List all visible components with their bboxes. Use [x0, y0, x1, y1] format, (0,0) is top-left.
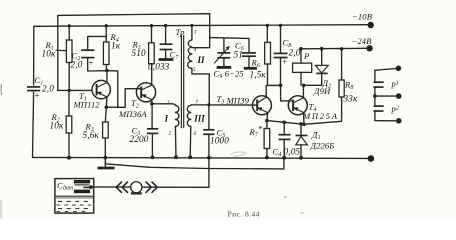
resistor R1: [42, 24, 73, 92]
resistor R7: [249, 121, 270, 160]
transformer winding II: [176, 24, 210, 74]
resistor R6: [250, 24, 271, 86]
capacitor C2: [71, 36, 107, 71]
wire T2 emitter: [150, 100, 154, 106]
svg-text:0,05: 0,05: [284, 147, 301, 157]
svg-text:1000: 1000: [210, 136, 229, 146]
wire bottom common bus: [33, 157, 369, 158]
svg-text:МП112: МП112: [73, 100, 101, 110]
svg-text:+: +: [88, 58, 94, 68]
svg-text:33к: 33к: [343, 94, 358, 104]
svg-text:−24В: −24В: [352, 36, 373, 46]
sensor Cdat box: [55, 179, 94, 214]
svg-text:II: II: [197, 55, 206, 65]
svg-text:0,033: 0,033: [148, 62, 170, 72]
svg-text:Рис. 8.44: Рис. 8.44: [228, 210, 260, 219]
sensor plug: [74, 180, 93, 193]
wire tank top: [210, 38, 249, 53]
wire T3 emitter: [265, 113, 269, 123]
wire -24V bus: [301, 47, 367, 50]
wire T1 collector: [106, 71, 108, 83]
svg-text:510: 510: [132, 48, 146, 58]
wire shield run: [105, 158, 284, 169]
capacitor C7: [148, 24, 179, 72]
svg-text:Тр: Тр: [176, 27, 186, 37]
transformer core: [181, 36, 183, 128]
svg-text:III: III: [193, 114, 205, 124]
ground bar below C7: [159, 58, 174, 61]
capacitor C3: [130, 104, 159, 159]
relay contact p2: [373, 94, 399, 121]
svg-text:2: 2: [169, 131, 172, 137]
svg-text:МП25А: МП25А: [302, 111, 339, 121]
svg-text:5: 5: [193, 67, 196, 73]
svg-text:2200: 2200: [130, 134, 149, 144]
transistor T3: [217, 94, 272, 115]
svg-text:2,0: 2,0: [71, 60, 83, 70]
capacitor C1: [27, 75, 54, 100]
relay P coil: [293, 47, 312, 85]
resistor R5: [132, 24, 155, 85]
caption: [228, 210, 260, 219]
svg-text:МП36А: МП36А: [118, 109, 147, 119]
trimmer capacitor C9: [214, 38, 245, 80]
svg-text:1,5к: 1,5к: [250, 70, 267, 80]
svg-text:2,0: 2,0: [289, 48, 301, 58]
svg-text:1к: 1к: [111, 41, 121, 51]
scan noise marks: [1, 84, 304, 219]
wire sensor cable: [91, 186, 209, 188]
wire winding II pin5 riser: [207, 74, 210, 107]
wire left column: [33, 26, 34, 157]
svg-text:10к: 10к: [50, 121, 64, 131]
transistor T1: [73, 80, 111, 109]
sensor water: [56, 196, 93, 211]
svg-text:I: I: [164, 114, 169, 124]
svg-text:10к: 10к: [42, 49, 56, 59]
svg-text:5,6к: 5,6к: [83, 130, 100, 140]
contact terminal p1: [396, 66, 402, 72]
terminal bottom output: [368, 155, 375, 162]
wire T3 collector to T4 base: [266, 85, 293, 101]
capacitor C6: [234, 41, 257, 69]
svg-text:2,0: 2,0: [42, 84, 54, 94]
relay contact p1: [373, 69, 399, 97]
cable symbol chevrons and circle: [116, 182, 157, 194]
transistor T2: [118, 83, 156, 119]
resistor R4: [103, 24, 120, 71]
capacitor C5: [203, 105, 229, 188]
node base T1 wire: [58, 89, 92, 91]
diode D1: [296, 122, 335, 160]
contact terminal middle: [396, 93, 402, 99]
svg-text:3: 3: [193, 30, 197, 36]
transformer winding III: [187, 100, 257, 160]
node T1 collector junction: [105, 69, 109, 73]
svg-text:+: +: [34, 90, 40, 100]
transistor T4: [288, 96, 338, 121]
svg-text:Р: Р: [303, 51, 310, 61]
svg-text:7: 7: [195, 100, 198, 106]
resistor R3: [83, 97, 109, 160]
wire coupling T1 to T2 base: [105, 71, 142, 109]
contact terminal p2: [396, 118, 402, 124]
resistor R2: [50, 90, 72, 159]
capacitor C4: [273, 121, 301, 160]
svg-text:+: +: [282, 56, 288, 66]
svg-text:С9 6−25: С9 6−25: [214, 69, 245, 81]
svg-text:6: 6: [194, 131, 197, 137]
transformer winding I: [152, 100, 179, 159]
svg-text:1: 1: [167, 100, 170, 106]
svg-text:−10В: −10В: [352, 12, 373, 22]
terminal -10B: [352, 12, 374, 29]
wire -10V top bus: [34, 25, 368, 27]
svg-text:Д226Б: Д226Б: [310, 141, 335, 151]
terminal -24B: [352, 36, 373, 52]
svg-text:4: 4: [194, 47, 197, 53]
wire feedback top line to winding tap: [58, 14, 210, 91]
svg-text:Д9И: Д9И: [313, 86, 331, 96]
resistor R8: [304, 47, 358, 124]
svg-text:51: 51: [234, 50, 244, 60]
wire emitter rail: [267, 113, 306, 127]
ground chassis bar below R3: [98, 158, 115, 168]
wire T4 collector: [302, 84, 306, 98]
capacitor C8: [274, 24, 301, 87]
diode D2: [304, 47, 331, 96]
